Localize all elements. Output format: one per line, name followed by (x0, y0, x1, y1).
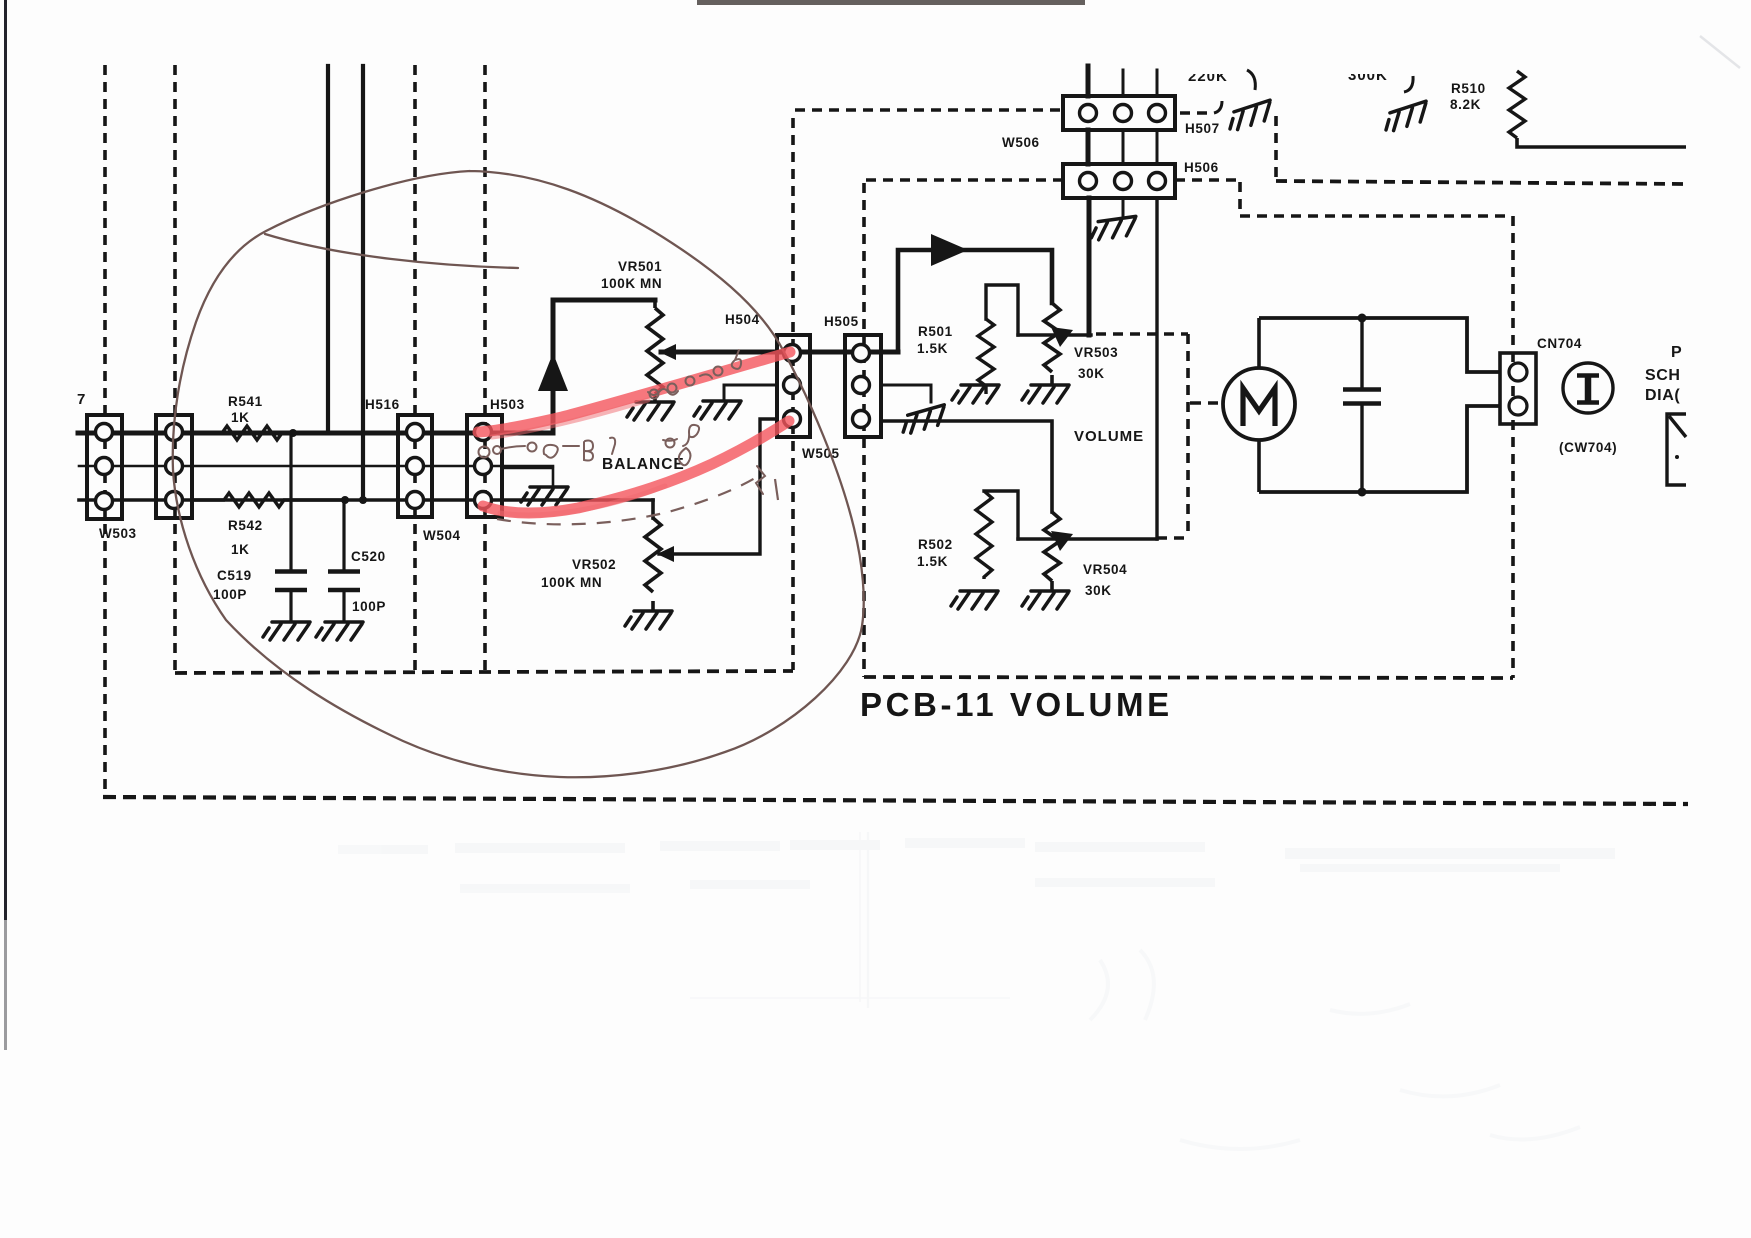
wire top signal y433 (78, 431, 553, 436)
ground VR504 (1022, 591, 1069, 609)
svg-text:VR503: VR503 (1074, 345, 1118, 360)
svg-text:(CW704): (CW704) (1559, 440, 1617, 455)
potentiometer VR501 (647, 300, 663, 402)
resistor R510 (1509, 71, 1686, 147)
ground H503 mid (521, 487, 568, 505)
dashed vert x1276 H507 branch (1274, 116, 1278, 180)
junction node C751 bottom (1358, 488, 1367, 497)
board dashed line x415 through H516 (413, 65, 417, 674)
wire between W506 H506 (1086, 130, 1091, 164)
connector H506 (1063, 164, 1175, 198)
scan left border line (4, 0, 7, 920)
dashed pot box top y334 (1096, 332, 1188, 336)
arrow up on H503 feed (538, 353, 568, 391)
svg-text:C519: C519 (217, 568, 252, 583)
svg-text:W503: W503 (99, 526, 137, 541)
hand-drawn ellipse annotation (173, 171, 864, 777)
ground R502 (951, 591, 998, 609)
svg-text:1.5K: 1.5K (917, 341, 948, 356)
ground H504 mid (694, 401, 741, 419)
wire middle y466 (79, 465, 553, 468)
svg-text:SCH: SCH (1645, 367, 1681, 384)
resistor R542 (192, 493, 345, 507)
wire stubs above W506 (1086, 66, 1091, 96)
dashed pot box bottom y538 (1157, 536, 1188, 540)
wire H503 mid tail to gnd (502, 468, 553, 486)
dashed vert x864 through H505 (862, 183, 866, 677)
svg-text:30K: 30K (1078, 366, 1105, 381)
wire motor top rail (1259, 318, 1500, 372)
svg-text:DIA(: DIA( (1645, 387, 1680, 404)
svg-text:R510: R510 (1451, 81, 1486, 96)
svg-text:1K: 1K (231, 410, 249, 425)
svg-text:H516: H516 (365, 397, 400, 412)
ground right of W506 (1214, 100, 1276, 132)
dashed wire H506 right (1175, 178, 1237, 182)
dashed wire y180 to H506 left (866, 178, 1063, 182)
connector H504 (777, 335, 810, 437)
junction node line B (359, 496, 367, 504)
resistor R502 (976, 491, 992, 579)
resistor R541 (192, 426, 293, 440)
dashed wire to W506 y110 (795, 108, 1063, 112)
svg-text:W505: W505 (802, 446, 840, 461)
board dashed line x793 through H504 (791, 118, 795, 670)
svg-text:H504: H504 (725, 312, 760, 327)
connector W503 second header (156, 415, 192, 518)
ground VR503 (1022, 385, 1069, 403)
balance board bottom dashed y673 (175, 671, 793, 673)
svg-text:R541: R541 (228, 394, 263, 409)
dashed wire y181 to right edge (1276, 181, 1686, 184)
wire H506 pin3 down to VR504 wiper (1155, 198, 1158, 539)
faint print-through artifacts (338, 832, 1615, 1149)
svg-text:R502: R502 (918, 537, 953, 552)
junction node C520 (341, 496, 349, 504)
resistor R501 (978, 319, 994, 394)
wire R501 top gamma (986, 285, 1018, 335)
wire motor bottom rail (1259, 406, 1500, 492)
page-edge bracket symbol (1667, 414, 1686, 485)
wire VR501 wiper to H505 y352 (661, 350, 898, 355)
potentiometer VR503 (1044, 303, 1060, 385)
svg-text:P: P (1671, 344, 1682, 361)
right scan margin (1690, 0, 1751, 1238)
partial label 220K cut by scan (1180, 50, 1258, 90)
motor M751 (1223, 318, 1295, 492)
ground R501 (952, 385, 999, 403)
svg-text:100P: 100P (213, 587, 247, 602)
ground H505 mid (899, 405, 949, 435)
svg-text:1.5K: 1.5K (917, 554, 948, 569)
svg-text:VOLUME: VOLUME (1074, 428, 1144, 445)
pencil scribbles (479, 350, 766, 494)
svg-text:W506: W506 (1002, 135, 1040, 150)
svg-text:H507: H507 (1185, 121, 1220, 136)
connector CN704 (1500, 353, 1536, 424)
wire H506 pin1 down to VR503 wiper (1087, 198, 1092, 335)
connector H505 (845, 335, 881, 437)
wire H503 up to VR501 (553, 300, 655, 433)
ground C520 (316, 622, 363, 640)
dashed vert x1240 (1238, 182, 1242, 214)
partial label 300K cut by scan (1340, 50, 1432, 133)
wire H503 bottom to VR502 (651, 500, 655, 518)
svg-text:100P: 100P (352, 599, 386, 614)
dashed pot box right x1188 (1186, 334, 1190, 538)
pencil dashed curve (497, 475, 760, 524)
scan edge dark band top (697, 0, 1085, 5)
board dashed line W503 left x105 (103, 65, 107, 797)
dashed wire y216 (1240, 214, 1511, 218)
capacitor C751 (1343, 318, 1381, 492)
arrow right on H505 feed (931, 234, 968, 266)
board dashed line x175 (173, 65, 177, 674)
red marker stroke bottom (483, 421, 789, 513)
svg-text:R542: R542 (228, 518, 263, 533)
svg-text:R501: R501 (918, 324, 953, 339)
svg-text:C520: C520 (351, 549, 386, 564)
wire VR503 wiper y335 (1018, 333, 1091, 336)
junction node C751 top (1358, 314, 1367, 323)
wire R502 top gamma (984, 491, 1018, 539)
svg-text:VR502: VR502 (572, 557, 616, 572)
svg-text:1K: 1K (231, 542, 249, 557)
long bottom dashed line y799 (103, 797, 1688, 804)
wire H505 bottom to VR504 (881, 421, 1052, 512)
svg-text:PCB-11 VOLUME: PCB-11 VOLUME (860, 686, 1173, 723)
board dashed line x485 through H503 (483, 65, 487, 673)
connector W503 (87, 415, 122, 519)
dashed vert x1513 volume box right (1511, 216, 1515, 678)
svg-text:7: 7 (77, 391, 86, 408)
wire H504 mid to gnd (724, 385, 777, 401)
svg-text:100K MN: 100K MN (541, 575, 602, 590)
svg-text:H505: H505 (824, 314, 859, 329)
ground VR501 (627, 402, 674, 420)
svg-text:CN704: CN704 (1537, 336, 1582, 351)
connector H503 (467, 415, 502, 517)
connector W506 (1063, 96, 1175, 130)
svg-text:W504: W504 (423, 528, 461, 543)
svg-text:H503: H503 (490, 397, 525, 412)
ground below H506 (1089, 216, 1138, 240)
potentiometer VR502 (645, 518, 661, 611)
capacitor C520 (328, 500, 360, 622)
indicator circle I (1563, 363, 1613, 413)
junction node C519 (289, 429, 297, 437)
capacitor C519 (275, 433, 307, 622)
wire vertical B x363 (361, 66, 365, 500)
wire H506 pin2 to gnd (1122, 198, 1125, 217)
svg-text:8.2K: 8.2K (1450, 97, 1481, 112)
svg-text:100K MN: 100K MN (601, 276, 662, 291)
wire VR502 wiper up to H504 pin3 (659, 419, 777, 554)
wire VR504 wiper y539 (1018, 537, 1157, 540)
red marker stroke top (478, 352, 790, 432)
svg-text:BALANCE: BALANCE (602, 456, 685, 473)
wire bottom y500 (79, 498, 653, 502)
dashed volume box bottom y678 (864, 677, 1513, 678)
svg-text:H506: H506 (1184, 160, 1219, 175)
ground C519 (263, 622, 310, 640)
svg-text:VR501: VR501 (618, 259, 662, 274)
potentiometer VR504 (1044, 512, 1060, 591)
dashed wire W506 right to ground (1180, 111, 1214, 115)
wire vertical A x328 (326, 66, 330, 433)
connector H516 (398, 415, 432, 517)
svg-text:VR504: VR504 (1083, 562, 1127, 577)
svg-text:30K: 30K (1085, 583, 1112, 598)
wire H505 mid to gnd (881, 385, 931, 402)
wire H505 up arrow run (898, 250, 1052, 352)
ground VR502 (625, 611, 672, 629)
dashed stub to motor y403 (1190, 401, 1218, 405)
